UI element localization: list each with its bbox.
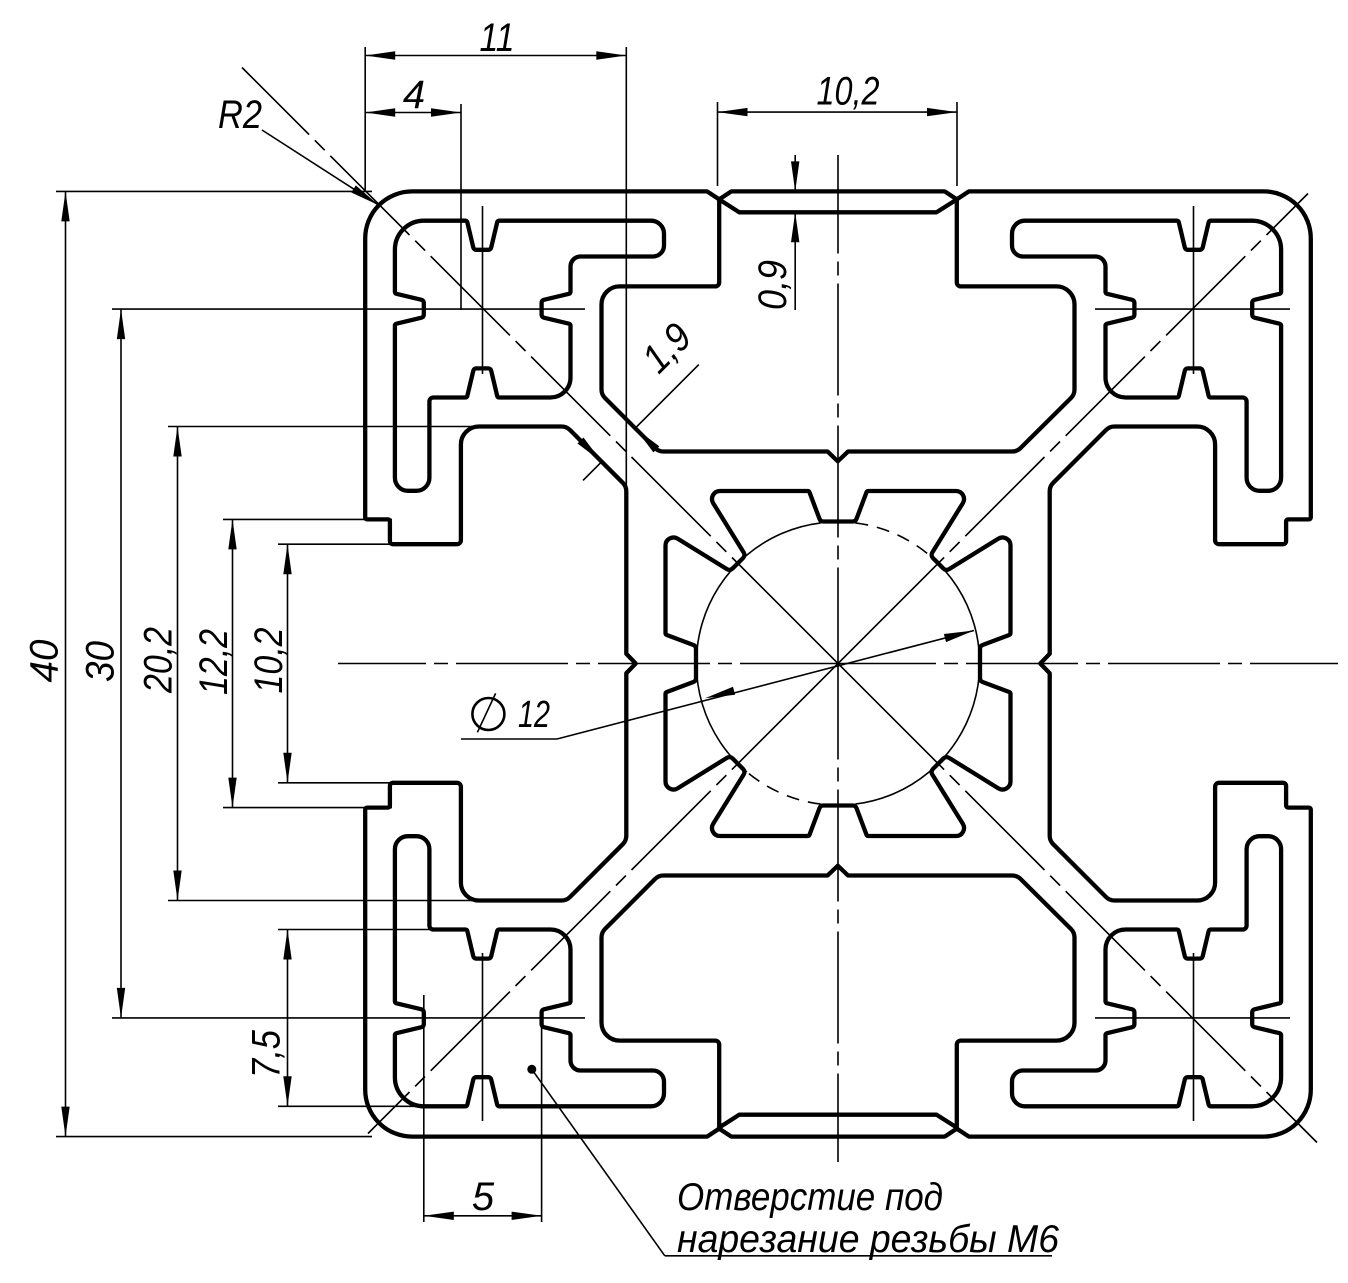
bottom-right corner screw chamber xyxy=(1012,836,1281,1106)
svg-text:4: 4 xyxy=(403,73,425,117)
svg-text:R2: R2 xyxy=(218,93,262,137)
bottom-left corner screw chamber xyxy=(395,836,664,1106)
dimension arrowheads xyxy=(61,51,974,1220)
svg-text:10,2: 10,2 xyxy=(817,70,880,114)
R2 label with leader xyxy=(262,130,379,205)
svg-text:10,2: 10,2 xyxy=(247,628,291,694)
svg-text:12,2: 12,2 xyxy=(192,629,236,695)
svg-text:11: 11 xyxy=(480,16,515,60)
top-right corner screw chamber xyxy=(1012,221,1281,491)
dimension 4 xyxy=(365,112,461,114)
profile outer contour with R2 corners, closed slot membranes (top/bottom) and open T-slots (left/right) xyxy=(365,191,1311,1136)
svg-text:нарезание резьбы М6: нарезание резьбы М6 xyxy=(677,1218,1059,1261)
svg-text:30: 30 xyxy=(79,641,123,682)
dimension 0,9 xyxy=(794,155,796,191)
svg-text:40: 40 xyxy=(23,640,67,683)
dimension 20,2 xyxy=(177,427,179,901)
O12 diameter dimension xyxy=(461,738,557,740)
svg-text:0,9: 0,9 xyxy=(751,260,795,310)
svg-text:12: 12 xyxy=(518,694,550,736)
svg-text:Отверстие под: Отверстие под xyxy=(677,1176,943,1219)
svg-text:5: 5 xyxy=(472,1175,495,1219)
central cavity with tap notches and 45-degree claws xyxy=(665,491,1010,836)
diagonal centerline NW-SE xyxy=(242,68,1317,1143)
dimension 12,2 xyxy=(232,519,234,807)
O12 reference circle solid arcs xyxy=(855,557,979,805)
dimension 5 xyxy=(424,1215,542,1217)
bottom slot internal cavity under membrane xyxy=(601,866,1074,1128)
O12 reference circle dashed arcs xyxy=(855,523,931,557)
diagonal centerline NE-SW xyxy=(368,194,1308,1134)
dimension 11 xyxy=(365,55,626,57)
dimension 10,2 left xyxy=(287,544,289,783)
dimension extension lines xyxy=(56,47,957,1222)
M6 tap hole note with leader and dot xyxy=(527,1065,536,1074)
top-left corner screw chamber with M6 thread notches xyxy=(395,221,664,491)
dimension 7,5 xyxy=(287,930,289,1107)
dimension 1,9 with leader xyxy=(635,365,699,429)
horizontal centerline xyxy=(338,663,1338,665)
chamber crosshair centerlines xyxy=(482,206,484,374)
dimension 40 xyxy=(65,191,67,1136)
svg-text:7,5: 7,5 xyxy=(245,1029,289,1078)
dimension 10,2 top xyxy=(718,111,958,113)
svg-text:20,2: 20,2 xyxy=(137,627,181,694)
dimension 30 xyxy=(120,309,122,1018)
top slot internal cavity under 0,9 membrane xyxy=(601,199,1074,461)
vertical centerline xyxy=(837,155,839,1162)
